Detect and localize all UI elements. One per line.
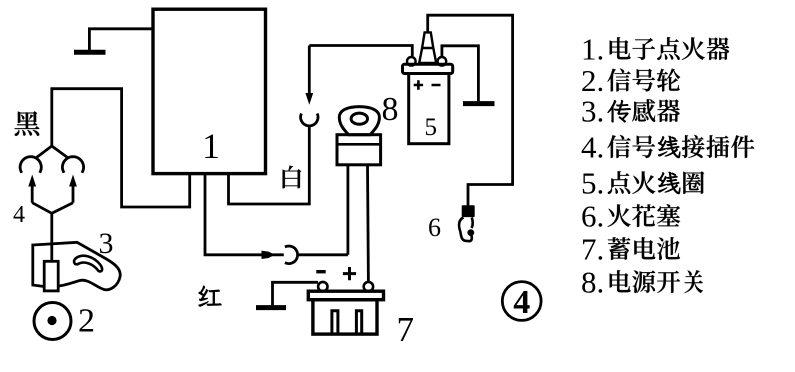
red wire: igniter to switch: [205, 173, 284, 254]
label 白 (white wire): [283, 166, 302, 189]
connector C4 fork (upper half): [37, 146, 68, 158]
coil - terminal: [438, 57, 447, 66]
svg-text:2: 2: [78, 303, 95, 340]
ignition coil 5: HT tower: [419, 32, 436, 63]
battery 7 cap: [308, 291, 383, 300]
svg-text:7.: 7.: [581, 231, 604, 266]
spark plug 6 body: [459, 218, 473, 242]
svg-text:5.: 5.: [581, 165, 604, 200]
red wire connector socket: [285, 246, 298, 264]
wire igniter pin to connector 4: [52, 89, 190, 207]
switch body: [337, 135, 381, 165]
red wire arrow plug: [262, 251, 276, 259]
ground (battery -): [273, 282, 319, 305]
svg-text:8: 8: [382, 91, 399, 128]
svg-text:4.: 4.: [581, 129, 604, 164]
coil + terminal: [407, 57, 416, 66]
svg-text:1: 1: [202, 126, 220, 166]
ground (igniter case, top-left): [89, 29, 153, 51]
svg-text:6.: 6.: [581, 198, 604, 233]
switch left leg: [346, 165, 349, 255]
switch key hole: [351, 113, 367, 124]
figure number circle 4: [502, 282, 541, 321]
svg-text:3.: 3.: [581, 93, 604, 128]
spark plug 6 cap: [462, 205, 475, 217]
coil polarity marks: [414, 80, 441, 89]
white wire arrow plug: [308, 46, 311, 96]
coil body: [409, 74, 449, 144]
white wire connector socket: [301, 114, 318, 126]
svg-text:5: 5: [425, 114, 438, 141]
battery vent plugs: [332, 311, 362, 333]
wire arrow-top to coil + terminal: [309, 46, 412, 57]
label 黑 (black wire): [15, 111, 40, 136]
svg-text:7: 7: [397, 310, 415, 349]
svg-text:4: 4: [13, 202, 25, 228]
svg-text:4: 4: [513, 284, 530, 321]
sensor 3 slot: [74, 256, 102, 272]
white wire: igniter to coil: [229, 126, 310, 204]
coil cap flange: [403, 64, 453, 73]
svg-text:1.: 1.: [581, 31, 604, 66]
sensor 3 probe: [44, 261, 58, 291]
switch right leg to battery +: [366, 165, 370, 282]
HT wire: coil tower to spark plug: [428, 15, 513, 206]
wire socket to switch left leg: [299, 253, 348, 256]
electronic igniter U1 box: [153, 9, 266, 173]
sensor 3 body: [33, 242, 120, 289]
power switch 8 key bow: [339, 107, 379, 135]
svg-text:3: 3: [99, 227, 114, 260]
ground (coil - terminal): [442, 46, 479, 102]
battery 7 body: [313, 300, 377, 334]
signal wheel 2: [34, 303, 71, 340]
label 红 (red wire): [199, 286, 222, 307]
battery polarity marks: [316, 270, 325, 273]
wire connector 4 to sensor 3: [32, 203, 73, 262]
battery 7 terminals: [318, 282, 327, 291]
svg-text:6: 6: [428, 213, 441, 242]
connector C4 plug arrows (lower half): [32, 185, 73, 203]
svg-text:8.: 8.: [581, 264, 604, 299]
